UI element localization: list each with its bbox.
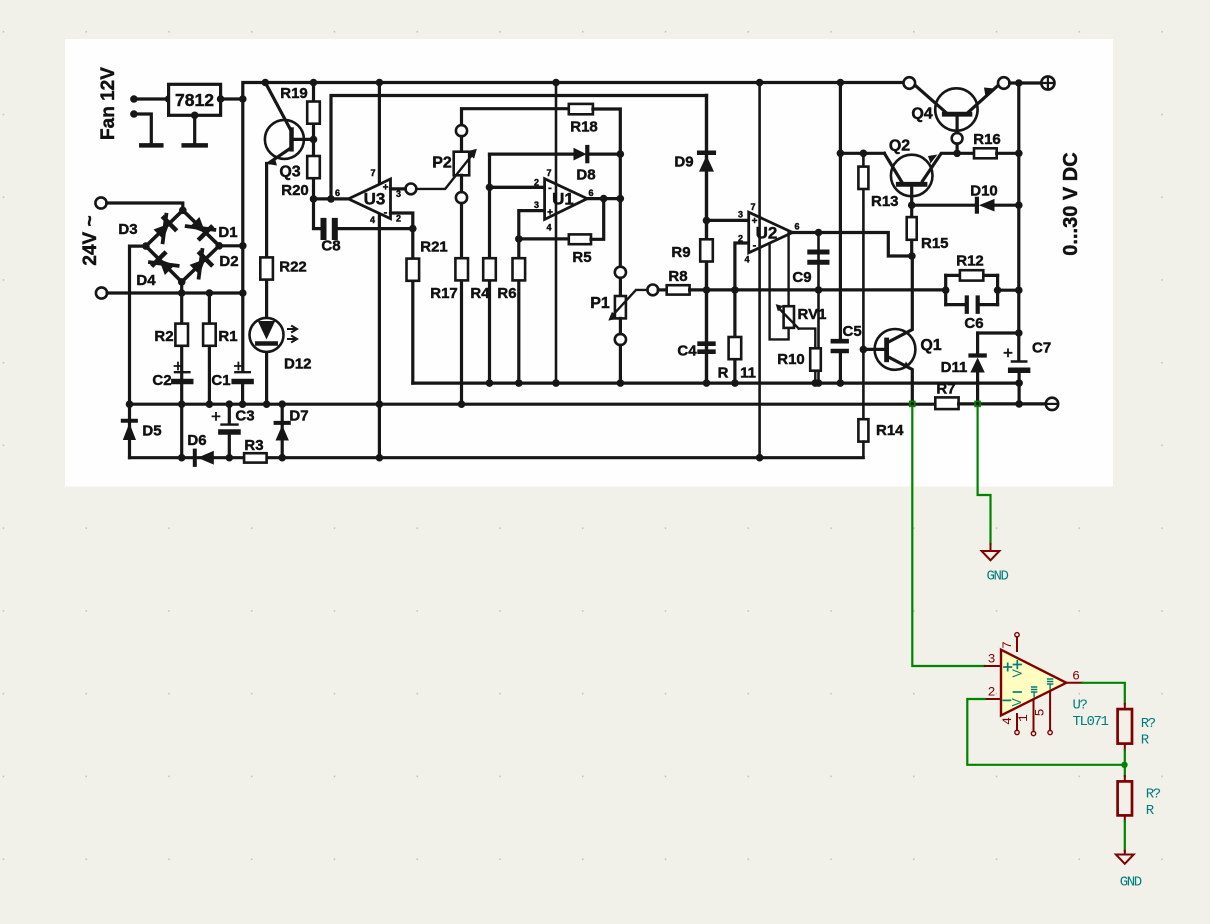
node bridge bottom vertex <box>178 278 186 286</box>
junction <box>376 79 384 87</box>
capacitor C1 polarized <box>211 363 251 405</box>
svg-text:Fan 12V: Fan 12V <box>98 67 119 140</box>
svg-text:D4: D4 <box>136 272 156 289</box>
resistor R6 <box>497 258 525 302</box>
svg-text:R16: R16 <box>973 131 1001 148</box>
junction <box>1015 79 1023 87</box>
junction <box>262 79 270 87</box>
svg-text:P2: P2 <box>432 155 452 172</box>
junction <box>515 379 523 387</box>
pin 3 <box>985 665 1001 667</box>
svg-text:D9: D9 <box>674 154 693 171</box>
junction <box>731 286 739 294</box>
junction <box>703 217 711 225</box>
resistor R4 <box>470 258 495 302</box>
wire GND2 stub <box>1124 851 1126 855</box>
junction Q3 base node <box>310 136 318 144</box>
wire Q3 emitter chain R22 D12 <box>265 164 268 405</box>
potentiometer P2 <box>416 109 569 204</box>
node green net-tie D11 cathode <box>975 401 980 406</box>
wire U3 pin2 to R21 top <box>391 213 413 229</box>
wire rail bottom <box>1017 383 1020 404</box>
svg-text:D2: D2 <box>219 253 238 270</box>
svg-text:R4: R4 <box>470 285 490 302</box>
node emitter terminal Q4 <box>998 77 1010 89</box>
junction <box>409 225 417 233</box>
ground GND1 <box>982 551 1000 560</box>
junction <box>908 252 916 260</box>
wire U1 output <box>587 197 620 200</box>
svg-text:C3: C3 <box>235 408 254 425</box>
resistor R9 <box>671 239 712 261</box>
wire U2 pin3 <box>707 219 749 222</box>
svg-text:R?: R? <box>1146 787 1161 803</box>
wire R6 vertical and U1 pin3 <box>519 211 545 384</box>
svg-text:7: 7 <box>1000 641 1015 649</box>
diode D7 <box>276 404 309 458</box>
symbols inside <box>1004 663 1011 670</box>
svg-text:C4: C4 <box>677 343 697 360</box>
svg-text:P1: P1 <box>590 295 610 312</box>
junction <box>908 201 916 209</box>
node bridge top vertex <box>179 207 187 215</box>
resistor R13 <box>858 153 898 419</box>
pin 1 <box>1033 699 1035 731</box>
node bridge right vertex <box>215 242 223 250</box>
node green net-tie Q1 emitter <box>910 401 915 406</box>
junction <box>812 379 820 387</box>
junction <box>310 79 318 87</box>
svg-text:C6: C6 <box>964 315 983 332</box>
junction <box>815 379 823 387</box>
junction <box>703 379 711 387</box>
svg-text:-: - <box>384 207 388 219</box>
wire <box>221 97 243 100</box>
wire output plus <box>1010 81 1041 84</box>
svg-text:0...30 V DC: 0...30 V DC <box>1060 152 1082 255</box>
pin 7 <box>1016 637 1018 651</box>
svg-text:R22: R22 <box>279 259 307 276</box>
resistor R14 <box>858 419 904 458</box>
svg-text:3: 3 <box>738 210 743 220</box>
resistor R10 <box>777 348 821 383</box>
transistor Q2 <box>884 138 957 206</box>
node bridge left vertex <box>142 242 150 250</box>
svg-text:C1: C1 <box>211 372 230 389</box>
node minus output terminal <box>1046 398 1058 410</box>
node 7812 input pin <box>165 95 173 103</box>
junction <box>226 400 234 408</box>
wire 7812 ground pin <box>193 115 196 143</box>
svg-text:-: - <box>548 182 552 194</box>
junction <box>815 229 823 237</box>
resistor R7 <box>935 381 958 410</box>
wire long vertical from top rail to bottom return <box>378 83 381 458</box>
resistor R22 <box>260 257 306 279</box>
svg-text:R2: R2 <box>154 328 173 345</box>
svg-text:R6: R6 <box>497 285 516 302</box>
capacitor C9 <box>792 233 827 384</box>
svg-text:6: 6 <box>588 188 593 198</box>
junction <box>239 289 247 297</box>
junction <box>515 235 523 243</box>
svg-text:Q3: Q3 <box>279 164 300 181</box>
wire 0V internal line <box>130 403 936 406</box>
junction <box>310 195 318 203</box>
junction <box>263 400 271 408</box>
svg-text:3: 3 <box>534 200 539 210</box>
wire R18 to feedback vertical <box>593 109 620 266</box>
wire bridge bottom vertex down <box>180 282 183 458</box>
svg-text:U?: U? <box>1073 698 1088 714</box>
wire base feed to Q2 <box>840 152 884 155</box>
svg-text:11: 11 <box>740 365 756 382</box>
svg-text:C7: C7 <box>1032 340 1051 357</box>
junction <box>206 400 214 408</box>
node fan terminal 1 <box>130 95 138 103</box>
resistor R20 <box>281 156 320 199</box>
resistor R16 <box>957 131 1019 158</box>
junction <box>278 400 286 408</box>
svg-text:D1: D1 <box>218 224 237 241</box>
junction <box>617 195 625 203</box>
svg-text:-: - <box>753 240 757 252</box>
node plus output terminal <box>1041 76 1054 89</box>
junction <box>239 400 247 408</box>
junction <box>703 286 711 294</box>
wire minus output <box>959 402 1046 405</box>
junction <box>815 286 823 294</box>
node 7812 output pin <box>217 95 225 103</box>
capacitor C2 polarized <box>152 363 190 390</box>
junction <box>327 195 335 203</box>
node collector terminal Q4 <box>904 77 916 89</box>
capacitor C7 polarized <box>1005 340 1052 384</box>
junction <box>756 79 764 87</box>
svg-text:7812: 7812 <box>175 90 214 110</box>
junction <box>206 289 214 297</box>
resistor R2 <box>154 324 188 346</box>
LED D12 <box>250 318 312 373</box>
junction <box>178 289 186 297</box>
junction <box>994 286 1002 294</box>
diode D10 <box>912 183 1019 212</box>
capacitor C8 <box>314 199 413 255</box>
svg-text:R10: R10 <box>777 351 805 368</box>
trimmer RV1 <box>770 232 827 349</box>
wire P2 bottom to R17 <box>460 203 463 404</box>
wire U3 pin3 stub <box>391 187 406 190</box>
wire fan ground stub <box>134 114 151 144</box>
pin 2 <box>985 698 1001 700</box>
resistor R15 <box>907 205 949 256</box>
svg-text:D8: D8 <box>576 167 595 184</box>
pin 6 output <box>1066 682 1082 684</box>
junction <box>486 184 494 192</box>
resistor R?1 <box>1118 704 1156 750</box>
svg-text:R19: R19 <box>280 85 308 102</box>
diode D9 <box>674 96 714 384</box>
junction <box>942 286 950 294</box>
svg-text:6: 6 <box>1072 669 1080 684</box>
svg-text:D5: D5 <box>142 423 161 440</box>
svg-text:C8: C8 <box>321 238 340 255</box>
svg-text:+: + <box>752 216 758 227</box>
wire voltage sense line <box>690 288 946 291</box>
svg-text:R9: R9 <box>671 244 690 261</box>
resistor R5 <box>519 199 604 266</box>
junction <box>376 400 384 408</box>
svg-text:+: + <box>383 183 389 194</box>
svg-text:R13: R13 <box>871 193 899 210</box>
ground fan <box>141 143 161 148</box>
transistor Q3 <box>265 83 314 181</box>
wire R12 to rail <box>998 289 1019 292</box>
svg-text:U2: U2 <box>756 224 778 243</box>
node fan terminal 2 <box>130 110 138 118</box>
wire right output rail <box>1017 83 1020 359</box>
resistor R?2 <box>1118 776 1161 821</box>
junction <box>552 79 560 87</box>
wire bottom return line <box>130 456 864 459</box>
wire GND1 stub <box>990 544 992 551</box>
junction green <box>1121 762 1127 768</box>
wire U1 pin2 <box>490 186 545 189</box>
diode D6 <box>187 432 213 465</box>
svg-text:R1: R1 <box>218 328 237 345</box>
diode D5 <box>123 421 162 440</box>
bridge rectifier diamond <box>146 210 219 282</box>
diode D3 top-left arm <box>151 215 179 243</box>
svg-text:7: 7 <box>546 168 551 178</box>
svg-text:C9: C9 <box>792 269 811 286</box>
svg-text:D12: D12 <box>284 356 312 373</box>
svg-text:R5: R5 <box>572 249 591 266</box>
junction <box>617 379 625 387</box>
wire green output <box>1082 683 1125 704</box>
svg-text:D10: D10 <box>970 183 998 200</box>
pin 5 <box>1049 691 1051 730</box>
wire green to op-amp pin3 <box>912 406 985 666</box>
wire U2 output <box>793 233 912 257</box>
wire green feedback <box>967 699 1121 765</box>
junction <box>837 379 845 387</box>
svg-text:D7: D7 <box>289 408 308 425</box>
svg-text:R21: R21 <box>420 239 448 256</box>
svg-text:7: 7 <box>370 168 375 178</box>
svg-text:4: 4 <box>370 215 375 225</box>
wire U3 output to R20 node <box>314 197 349 200</box>
svg-text:2: 2 <box>738 234 743 244</box>
wire R19 R20 chain <box>312 83 315 199</box>
regulator 7812 <box>169 84 221 115</box>
svg-text:R18: R18 <box>570 119 598 136</box>
svg-text:V: V <box>1011 669 1025 678</box>
capacitor C3 polarized <box>213 404 255 458</box>
svg-text:R7: R7 <box>936 381 955 398</box>
svg-text:R15: R15 <box>921 235 949 252</box>
op-amp U3 <box>335 168 401 225</box>
svg-text:C5: C5 <box>843 323 862 340</box>
junction <box>1015 201 1023 209</box>
capacitor C4 <box>677 343 713 360</box>
junction <box>239 242 247 250</box>
svg-text:D11: D11 <box>941 359 968 376</box>
diode D8 <box>490 147 621 184</box>
junction <box>486 379 494 387</box>
wire green junction to R?2 <box>1124 765 1126 776</box>
wire green R?1 to junction <box>1124 750 1126 765</box>
resistor R3 <box>244 437 267 463</box>
svg-text:GND: GND <box>987 569 1009 585</box>
junction <box>376 454 384 462</box>
diode D4 bottom-left arm <box>150 250 178 278</box>
wire green to GND <box>978 406 991 544</box>
junction <box>837 150 845 158</box>
svg-text:Q4: Q4 <box>911 106 932 123</box>
svg-text:RV1: RV1 <box>798 306 827 323</box>
svg-text:R14: R14 <box>876 422 904 439</box>
svg-text:2: 2 <box>534 178 539 188</box>
junction <box>600 195 608 203</box>
junction <box>1015 286 1023 294</box>
ground GND2 <box>1116 855 1134 864</box>
wire main rail from 7812 down <box>241 99 244 370</box>
wire Q2 base rail <box>839 83 842 340</box>
wire <box>134 97 169 100</box>
svg-text:6: 6 <box>335 188 340 198</box>
junction <box>1015 379 1023 387</box>
wire top rail <box>243 83 903 100</box>
junction <box>731 379 739 387</box>
node 7812 gnd pin <box>191 112 199 120</box>
svg-text:V: V <box>1010 698 1024 707</box>
node AC terminal bottom <box>96 287 107 298</box>
transistor Q1 <box>863 256 941 402</box>
svg-text:R20: R20 <box>281 182 309 199</box>
op-amp U? TL071 <box>985 633 1083 736</box>
junction <box>837 79 845 87</box>
junction Q1 base node <box>860 346 868 354</box>
scanned schematic white sheet <box>65 39 1113 487</box>
svg-text:R3: R3 <box>244 437 263 454</box>
diode D11 <box>941 333 1019 402</box>
node U3 pin3 terminal <box>406 184 417 195</box>
svg-text:6: 6 <box>794 222 799 232</box>
junction <box>1015 150 1023 158</box>
svg-text:Q2: Q2 <box>889 138 910 155</box>
svg-text:D3: D3 <box>118 221 137 238</box>
svg-text:C2: C2 <box>152 372 171 389</box>
svg-text:4: 4 <box>546 223 551 233</box>
svg-text:R?: R? <box>1141 716 1156 732</box>
svg-text:2: 2 <box>988 685 996 700</box>
wire <box>107 203 183 207</box>
wire R4 vertical branch <box>488 154 491 383</box>
svg-text:24V ~: 24V ~ <box>80 215 101 265</box>
node AC terminal top <box>95 197 106 208</box>
resistor R1 <box>203 324 237 346</box>
capacitor C5 <box>833 323 862 383</box>
junction <box>126 400 134 408</box>
svg-text:TL071: TL071 <box>1073 714 1109 730</box>
wire bridge right vertex to rail <box>219 244 243 247</box>
op-amp U2 <box>738 83 800 458</box>
junction <box>278 454 286 462</box>
wire <box>107 291 243 294</box>
junction <box>860 150 868 158</box>
svg-text:R12: R12 <box>956 253 984 270</box>
junction <box>1015 400 1023 408</box>
junction <box>552 379 560 387</box>
svg-text:U1: U1 <box>552 190 574 209</box>
diode D1 top-right arm <box>187 214 215 242</box>
resistor R11 <box>718 337 756 382</box>
svg-text:4: 4 <box>1000 717 1015 725</box>
svg-text:R17: R17 <box>430 285 458 302</box>
svg-text:GND: GND <box>1120 875 1142 891</box>
wire green R?2 to GND2 <box>1124 821 1126 851</box>
junction <box>178 454 186 462</box>
svg-text:R: R <box>718 365 729 382</box>
potentiometer P1 <box>590 267 647 383</box>
svg-text:R8: R8 <box>668 268 687 285</box>
resistor R12 and capacitor C6 loop <box>946 253 998 333</box>
junction <box>617 150 625 158</box>
diode D2 bottom-right arm <box>187 250 215 278</box>
resistor R19 <box>280 85 320 124</box>
junction <box>178 400 186 408</box>
junction <box>458 400 466 408</box>
resistor R8 <box>658 268 689 295</box>
junction <box>1015 329 1023 337</box>
junction <box>239 95 247 103</box>
svg-text:4: 4 <box>744 255 749 265</box>
svg-text:7: 7 <box>750 202 755 212</box>
wire R1 branch <box>208 293 211 404</box>
pin 4 <box>1016 714 1018 730</box>
resistor R17 <box>430 258 468 302</box>
ground 7812 <box>184 143 206 148</box>
svg-text:+: + <box>547 208 553 219</box>
svg-text:D6: D6 <box>187 432 206 449</box>
wire bridge left to rail down <box>130 246 146 458</box>
node P1 wiper terminal <box>647 285 658 296</box>
transistor Q4 <box>911 86 997 154</box>
svg-text:2: 2 <box>396 214 401 224</box>
svg-text:3: 3 <box>988 652 996 667</box>
wire second top line <box>331 96 707 199</box>
junction <box>756 454 764 462</box>
svg-text:Q1: Q1 <box>920 337 941 354</box>
op-amp U1 <box>534 83 594 384</box>
resistor R21 <box>407 229 448 384</box>
svg-text:5: 5 <box>1033 709 1048 717</box>
wire regulated reference line <box>413 382 1019 385</box>
junction <box>953 150 961 158</box>
resistor R18 <box>569 104 598 136</box>
wire U2 pin2 to R11 <box>735 243 749 383</box>
junction <box>226 454 234 462</box>
svg-text:1: 1 <box>1016 714 1031 722</box>
